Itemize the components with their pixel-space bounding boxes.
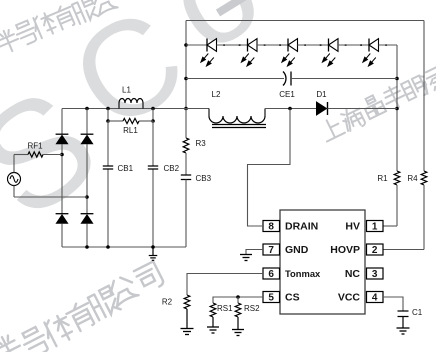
wire GND pin 7: [246, 250, 263, 255]
wire CB1 column: [107, 121, 109, 166]
svg-text:RS1: RS1: [217, 304, 233, 313]
svg-text:R3: R3: [196, 139, 207, 148]
watermark big letter S: [0, 55, 126, 250]
svg-text:3: 3: [372, 269, 378, 280]
node D1 cathode rail: [395, 107, 399, 111]
wire R3 to CB3: [185, 153, 187, 175]
node LED string left: [184, 43, 188, 47]
watermark char: [419, 67, 436, 94]
watermark char: [31, 11, 59, 39]
wire CE1 row right: [291, 78, 397, 80]
wire main rail from bridge: [62, 108, 209, 110]
inductor L1: [119, 99, 143, 109]
node main rail / R3 column: [184, 107, 188, 111]
wire between LEDs: [257, 44, 288, 46]
wire CB3 to bottom rail: [185, 180, 187, 248]
capacitor CB2: [148, 166, 158, 169]
wire R1 to HV pin: [396, 185, 398, 226]
svg-text:CB3: CB3: [196, 174, 212, 183]
watermark char: [401, 76, 428, 103]
pin 6 box: [263, 268, 280, 279]
wire AC bottom: [13, 186, 15, 198]
wire DRAIN pin 8: [248, 109, 291, 227]
svg-text:D1: D1: [316, 90, 327, 99]
ground RS1: [207, 326, 219, 328]
watermark char: [0, 332, 25, 352]
resistor RF1: [28, 152, 43, 157]
LED D2 of string: [241, 39, 257, 67]
node bottom CB2 / ground tap: [151, 245, 155, 249]
watermark char: [41, 313, 75, 348]
node bottom CB1: [106, 245, 110, 249]
svg-text:6: 6: [268, 269, 274, 280]
ground C1: [397, 327, 410, 329]
svg-text:5: 5: [268, 293, 274, 304]
watermark char: [0, 27, 22, 55]
svg-text:R2: R2: [162, 298, 173, 307]
ground pin 7: [240, 254, 252, 256]
node bottom bridge-right: [85, 245, 89, 249]
wire RF1 to bridge: [43, 154, 62, 156]
wire RL1 stub left: [107, 109, 109, 122]
op-amp U1 IC body: [280, 210, 365, 314]
svg-text:HV: HV: [345, 221, 360, 233]
watermark char: [134, 261, 165, 293]
node bridge right top: [85, 107, 89, 111]
svg-text:CS: CS: [285, 292, 300, 304]
watermark char: [64, 299, 97, 333]
node CE1 left: [184, 77, 188, 81]
svg-text:CB2: CB2: [164, 164, 180, 173]
watermark char: [380, 83, 408, 112]
diode D1: [317, 102, 328, 115]
svg-text:CB1: CB1: [118, 164, 134, 173]
svg-text:R1: R1: [377, 174, 388, 183]
svg-text:RS2: RS2: [244, 304, 260, 313]
watermark char: [361, 93, 386, 119]
watermark char: [19, 325, 50, 352]
wire R4 to HOVP pin: [423, 185, 425, 250]
svg-text:R4: R4: [407, 174, 418, 183]
inductor L2 (choke with core): [209, 109, 266, 128]
diode bridge upper-left: [56, 133, 69, 135]
watermark char: [91, 0, 117, 15]
node RL1 left: [106, 119, 110, 123]
pin 8 box: [263, 221, 280, 232]
LED D5 of string: [363, 39, 379, 67]
node AC return: [85, 195, 89, 199]
diode bridge lower-right: [81, 213, 94, 215]
LED D4 of string: [322, 39, 338, 67]
svg-text:RF1: RF1: [27, 142, 43, 151]
wire RL1 stub right: [152, 109, 154, 122]
wire Tonmax pin 6: [187, 274, 263, 296]
svg-text:L1: L1: [122, 86, 131, 95]
svg-text:Tonmax: Tonmax: [285, 268, 321, 279]
pin 3 box: [367, 268, 384, 279]
wire CS pin 5: [213, 297, 263, 303]
wire bridge right column top: [86, 109, 88, 135]
resistor RS1: [210, 303, 216, 317]
svg-text:1: 1: [372, 222, 378, 233]
watermark char: [339, 104, 367, 133]
svg-text:HOVP: HOVP: [330, 244, 360, 256]
pin 1 box: [367, 221, 384, 232]
wire bridge left mid: [61, 144, 63, 214]
wire AC top: [13, 155, 15, 173]
wire D1 to right node: [328, 108, 398, 110]
svg-text:2: 2: [372, 245, 378, 256]
wire bottom rail: [62, 246, 186, 248]
wire bridge left column top: [61, 109, 63, 135]
capacitor CB1: [103, 166, 113, 169]
svg-text:VCC: VCC: [338, 292, 361, 304]
watermark char: [87, 286, 120, 320]
wire lead tick: [345, 44, 347, 46]
wire RS2: [237, 297, 239, 303]
wire bridge right mid: [86, 144, 88, 214]
wire bridge right bottom: [86, 224, 88, 248]
AC source: [8, 173, 21, 186]
resistor R4: [421, 171, 427, 185]
watermark char: [50, 3, 77, 31]
diode bridge upper-right: [81, 133, 94, 135]
watermark char: [71, 0, 98, 24]
LED D1 of string: [201, 39, 217, 67]
wire VCC pin 4: [383, 297, 403, 311]
svg-text:DRAIN: DRAIN: [285, 221, 318, 233]
capacitor CB3: [181, 175, 191, 180]
capacitor CE1: [283, 72, 291, 86]
node DRAIN tap: [288, 107, 292, 111]
watermark char: [13, 19, 38, 46]
wire between LEDs: [217, 44, 248, 46]
wire RL1 row: [108, 120, 123, 122]
svg-text:4: 4: [372, 293, 378, 304]
wire RS1 to ground: [212, 317, 214, 327]
wire outer right vertical: [423, 21, 425, 172]
svg-text:8: 8: [268, 222, 274, 233]
resistor R2: [184, 295, 190, 309]
watermark big letter C: [46, 0, 209, 159]
wire lead tick: [385, 44, 387, 46]
wire LED row start: [186, 44, 207, 46]
wire between LEDs: [338, 44, 369, 46]
svg-text:NC: NC: [345, 268, 361, 280]
wire RS2 to ground: [237, 317, 239, 329]
svg-text:7: 7: [268, 245, 274, 256]
pin 2 box: [367, 244, 384, 255]
resistor R1: [394, 171, 400, 185]
ground R2: [181, 328, 194, 330]
capacitor C1: [398, 311, 409, 317]
wire CB2 column: [152, 121, 154, 166]
node L1 left: [106, 107, 110, 111]
node RF1 to bridge: [60, 153, 64, 157]
svg-text:GND: GND: [285, 244, 309, 256]
wire R3 column top: [185, 109, 187, 139]
wire CE1 row left: [186, 78, 284, 80]
wire between LEDs: [298, 44, 329, 46]
node L1 right: [151, 107, 155, 111]
pin 4 box: [367, 292, 384, 303]
node RS2 tap: [236, 295, 240, 299]
watermark char: [106, 274, 138, 306]
resistor RL1: [123, 118, 139, 123]
pin 7 box: [263, 244, 280, 255]
diode bridge lower-left: [56, 213, 69, 215]
wire lead tick: [264, 44, 266, 46]
resistor RS2: [235, 303, 241, 317]
wire top rail: [186, 20, 424, 22]
svg-text:L2: L2: [212, 90, 221, 99]
wire left vertical: [185, 21, 187, 109]
node RL1 right: [151, 119, 155, 123]
wire bridge left bottom: [61, 224, 63, 248]
wire lead tick: [223, 44, 225, 46]
LED D3 of string: [282, 39, 298, 67]
wire LED row end to right: [379, 44, 398, 46]
resistor R3: [183, 138, 189, 153]
wire C1 to ground: [402, 317, 404, 328]
ground RS2: [232, 329, 244, 331]
wire R2 to ground: [186, 309, 188, 328]
svg-text:RL1: RL1: [123, 126, 138, 135]
ground main rail: [152, 247, 154, 255]
wire lead tick: [304, 44, 306, 46]
watermark diagonal bar: [218, 0, 244, 13]
wire right return vertical (LED/CE1/D1 node): [396, 45, 398, 171]
watermark char: [319, 116, 345, 142]
wire L2 to D1 node: [265, 108, 316, 110]
svg-text:CE1: CE1: [279, 90, 295, 99]
node CE1 right: [395, 77, 399, 81]
pin 5 box: [263, 292, 280, 303]
svg-text:C1: C1: [412, 308, 423, 317]
watermark big letter o: [141, 0, 285, 80]
